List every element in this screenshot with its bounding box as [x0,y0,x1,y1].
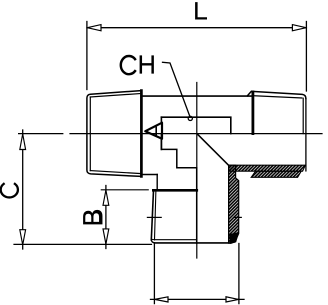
right cap left edge (thick) [251,92,254,134]
bore corner diagonal [198,134,229,165]
dimension B arrowhead top [103,190,109,205]
branch right wall hatched band [229,165,239,243]
dimension L extension line right [305,22,307,92]
centerline vertical [196,83,198,259]
cone inner face line [155,127,157,134]
body bottom-left silhouette line [141,174,157,176]
left cap (nut) outer body [87,91,141,177]
body left edge [160,117,162,149]
dimension B arrowhead bottom [103,229,109,244]
right cap inner top line [253,96,302,98]
dimension B line [105,186,107,249]
bottom dimension extension line left [153,244,155,304]
dimension C arrowhead bottom [20,230,26,245]
bottom dimension line [151,298,245,300]
centerline horizontal left segment [19,133,63,135]
label CH [121,56,135,74]
left cap right edge (thick) [140,91,143,177]
branch bottom edge [151,240,231,243]
bottom dimension arrowhead left [155,297,168,302]
dimension L arrowhead left [87,25,101,31]
right cap top edge outer [247,91,306,98]
hex body flat line with right corner drop [161,117,230,133]
branch left thread crest line [151,190,153,240]
label L [195,2,207,19]
branch thread start line (thick) [153,189,197,192]
branch right wall bottom black wedge [230,233,239,243]
dimension C line [22,130,24,249]
leader line CH [163,62,190,116]
dimension B top reference line [101,189,148,191]
right cap right edge outer [305,99,307,171]
dimension L extension line left [86,22,88,90]
thread runout tick right [235,216,242,218]
bottom dimension arrowhead right [226,297,239,302]
leader dot CH [188,116,192,120]
label B [83,210,102,225]
left cap chamfer inner bottom line [90,171,141,174]
hex body top silhouette line [141,95,252,97]
right arm hatched thread band B [251,171,301,177]
dimension L line [87,27,306,29]
label C [1,184,18,198]
bottom dimension extension line right [238,244,240,304]
stair break line [161,134,196,244]
dimension C arrowhead top [20,134,26,150]
centerline horizontal main segment [70,133,322,135]
cone tip (left arm) [145,123,162,139]
thread runout tick left [147,216,161,218]
branch neck left edge [156,175,158,191]
dimension C/B bottom reference line [14,243,152,245]
right arm hatched bottom wall band A [229,165,306,171]
branch bottom chamfer line [152,238,197,241]
right cap right edge inner [302,98,304,133]
left cap chamfer inner left line [89,97,91,171]
left cap chamfer inner top line [90,94,141,98]
branch left thread root line [155,190,156,240]
dimension L arrowhead right [292,25,306,31]
